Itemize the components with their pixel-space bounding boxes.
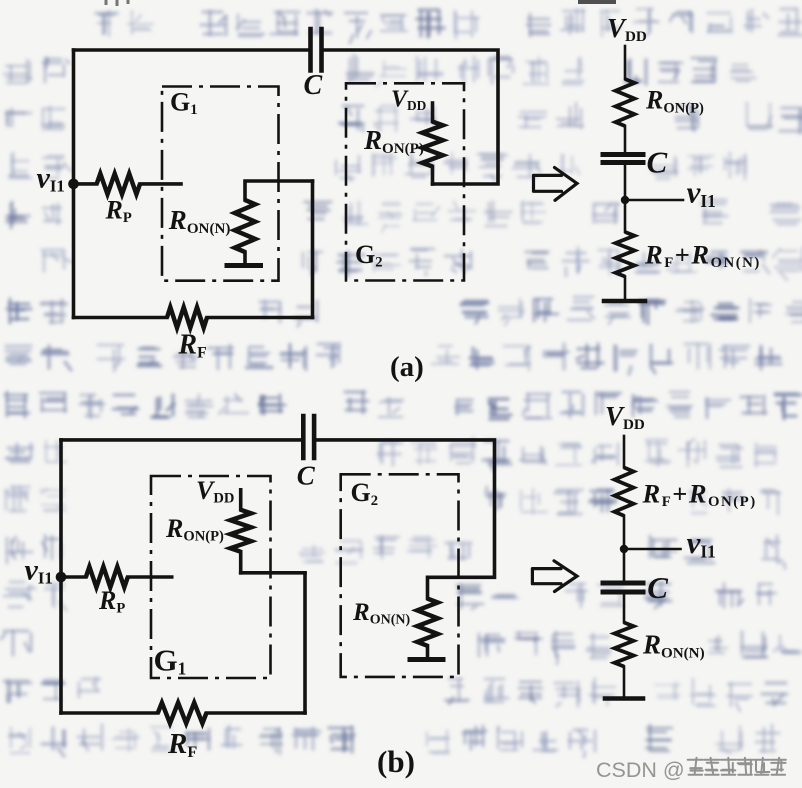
svg-text:C: C: [297, 461, 316, 491]
svg-text:C: C: [647, 570, 668, 605]
svg-text:C: C: [647, 145, 668, 180]
svg-text:(a): (a): [390, 351, 424, 383]
svg-text:CSDN @: CSDN @: [596, 758, 685, 782]
svg-text:(b): (b): [377, 744, 415, 779]
svg-text:C: C: [304, 70, 323, 101]
